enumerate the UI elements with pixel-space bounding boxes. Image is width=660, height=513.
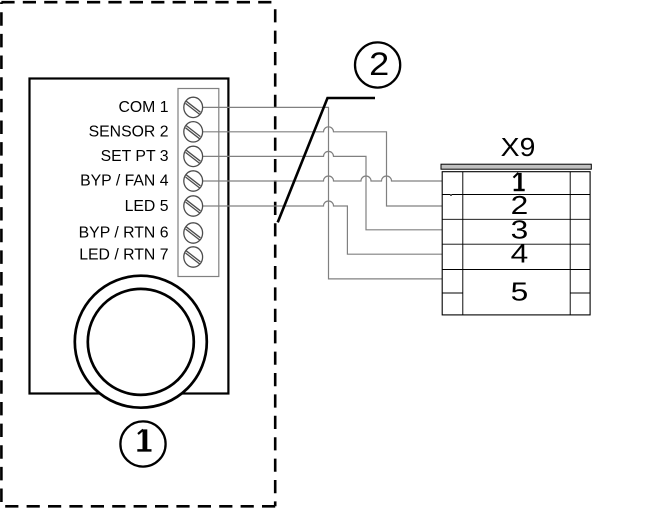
screw terminal 1: [184, 97, 203, 117]
cable break slash: [278, 98, 375, 222]
dashed enclosure box (item 1 boundary): [1, 2, 275, 506]
svg-text:SENSOR 2: SENSOR 2: [89, 123, 169, 140]
connector inner vertical right: [569, 172, 571, 315]
svg-text:2: 2: [369, 47, 389, 83]
screw terminal 3: [184, 146, 203, 166]
wire BYPFAN4 to pin1: [203, 176, 443, 181]
connector side divider right: [570, 292, 590, 294]
screw terminal 7: [184, 247, 203, 267]
connector row divider 2/3: [442, 218, 590, 220]
svg-text:4: 4: [511, 240, 529, 269]
thermostat device body U1: [30, 79, 229, 394]
wire LED5 to pin4: [203, 201, 443, 254]
dial knob inner circle: [88, 289, 194, 395]
svg-text:5: 5: [511, 278, 529, 307]
callout circle 1: [120, 421, 165, 466]
connector row divider 4/5: [442, 269, 590, 271]
callout circle 2: [355, 42, 400, 87]
connector X9 top bar: [441, 164, 591, 169]
svg-text:LED / RTN 7: LED / RTN 7: [79, 247, 168, 264]
screw terminal 2: [184, 122, 203, 142]
connector row divider 3/4: [442, 243, 590, 245]
connector row divider 1/2: [442, 194, 590, 196]
wire SETPT3 to pin3: [203, 151, 443, 229]
svg-text:LED 5: LED 5: [125, 198, 169, 215]
terminal strip TB1: [178, 89, 219, 277]
wire SENSOR2 to pin2: [203, 127, 443, 206]
digit 1 of callout: [137, 429, 151, 450]
dial knob outer ring: [75, 276, 207, 408]
pin number 1: [514, 173, 525, 190]
svg-text:BYP / RTN 6: BYP / RTN 6: [79, 224, 169, 241]
connector side divider left: [442, 292, 463, 294]
screw terminal 5: [184, 196, 203, 216]
wire COM1 to pin5: [203, 107, 443, 279]
svg-text:BYP / FAN 4: BYP / FAN 4: [80, 173, 169, 190]
svg-text:SET PT 3: SET PT 3: [101, 148, 169, 165]
svg-text:X9: X9: [501, 132, 536, 162]
connector X9 body: [442, 172, 590, 315]
stray dot: [450, 194, 452, 196]
screw terminal 4: [184, 171, 203, 191]
screw terminal 6: [184, 223, 203, 243]
svg-text:COM 1: COM 1: [118, 99, 168, 116]
connector inner vertical left: [462, 172, 464, 315]
